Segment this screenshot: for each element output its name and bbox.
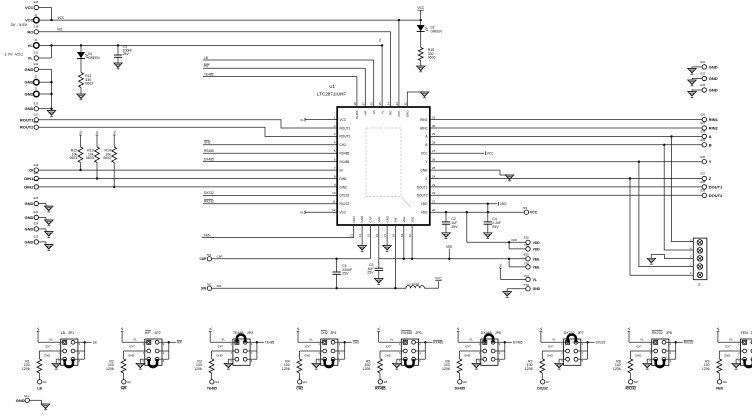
svg-text:JP5: JP5: [415, 331, 421, 335]
svg-text:LB: LB: [204, 56, 208, 60]
svg-text:RX232: RX232: [684, 341, 694, 345]
ground symbol C4: [484, 233, 493, 239]
svg-text:1.7V -VCC: 1.7V -VCC: [4, 51, 23, 56]
svg-text:FEN: FEN: [741, 331, 749, 335]
svg-text:H/F: H/F: [364, 110, 368, 115]
svg-text:VL: VL: [49, 338, 53, 342]
svg-text:SW: SW: [394, 217, 398, 222]
svg-text:VEE: VEE: [446, 245, 452, 249]
wire GND JP6: [464, 354, 483, 364]
svg-text:GND: GND: [709, 88, 718, 93]
wire GND pin32: [407, 92, 424, 107]
svg-text:GND: GND: [635, 354, 641, 358]
svg-text:VCC: VCC: [421, 152, 428, 156]
test point TP4 VCC: [523, 206, 538, 215]
svg-text:RX232: RX232: [340, 202, 350, 206]
svg-text:20: 20: [408, 234, 412, 238]
svg-text:20: 20: [432, 208, 436, 212]
ground symbol JP5: [393, 363, 402, 369]
svg-text:VL: VL: [28, 43, 34, 48]
connector E32 GND right: [692, 72, 718, 81]
svg-text:RX485: RX485: [375, 387, 385, 391]
wire Z: [430, 177, 702, 179]
svg-text:1206: 1206: [194, 367, 202, 371]
connector E4 CH2: [296, 380, 307, 391]
svg-text:VL: VL: [380, 110, 384, 114]
connector E1 LB: [37, 380, 47, 391]
wire RIN2: [430, 127, 702, 129]
wire EXT JP2: [124, 345, 148, 359]
svg-text:E2: E2: [127, 380, 131, 384]
svg-text:VCC: VCC: [435, 277, 442, 281]
connector E31 GND right: [692, 60, 718, 69]
wire net H/F JP2: [159, 341, 182, 360]
net tag VL pin12: [300, 210, 337, 214]
wire GND JP3: [216, 354, 235, 364]
label 1.7V - VCC: [4, 51, 23, 56]
wire EXT JP8: [630, 345, 654, 359]
wire GND JP2: [128, 354, 147, 364]
ground symbol pin32: [420, 92, 429, 98]
U1 top pin names and numbers: [353, 102, 410, 120]
wire RS485 net: [203, 149, 337, 153]
wire net DX232 JP7: [578, 341, 606, 360]
wire DX485 net: [203, 157, 337, 161]
svg-text:1206: 1206: [525, 367, 533, 371]
jumper shunt JP6: [485, 334, 493, 342]
svg-text:11: 11: [332, 200, 335, 204]
connector E27 RIN2: [701, 121, 719, 130]
svg-text:31: 31: [432, 115, 436, 119]
svg-text:VL: VL: [112, 130, 116, 134]
svg-text:E35: E35: [701, 138, 706, 142]
svg-text:13: 13: [350, 234, 354, 238]
wire EXT JP3: [212, 345, 236, 359]
svg-text:1206: 1206: [363, 367, 371, 371]
wire EXT JP4: [299, 345, 323, 359]
wire EXT JP5: [380, 345, 404, 359]
svg-text:25V: 25V: [342, 272, 349, 276]
svg-text:E39: E39: [701, 188, 706, 192]
ground symbol left chain: [47, 111, 56, 117]
jumper JP3 TE485: [231, 331, 254, 365]
resistor R6: [442, 359, 462, 380]
ground symbol JP2: [136, 363, 145, 369]
svg-text:VCC: VCC: [417, 6, 424, 10]
svg-text:A: A: [709, 134, 712, 139]
svg-text:25V: 25V: [123, 52, 130, 56]
resistor R3: [194, 359, 214, 380]
svg-text:1206: 1206: [613, 367, 621, 371]
capacitor C4: [484, 204, 502, 233]
ground symbol E33: [688, 90, 697, 97]
svg-text:E15: E15: [34, 0, 39, 4]
jumper JP9 FEN: [738, 331, 752, 365]
wire RO net: [39, 28, 391, 107]
connector J1 VCC: [25, 13, 39, 23]
svg-text:VL: VL: [208, 327, 212, 331]
ground symbol pin17: [383, 246, 392, 252]
svg-text:L1 10uH: L1 10uH: [408, 282, 419, 286]
svg-text:34: 34: [387, 102, 391, 106]
wire VDD pin20 row: [430, 211, 524, 213]
ground symbol E24: [39, 229, 54, 237]
svg-text:U1: U1: [329, 84, 335, 89]
svg-text:E8: E8: [634, 380, 638, 384]
svg-text:DX232: DX232: [340, 194, 350, 198]
svg-text:VDD: VDD: [533, 241, 541, 245]
wire VL to E11: [39, 45, 52, 58]
wire CH2 net: [203, 141, 337, 145]
svg-text:GND: GND: [709, 64, 718, 69]
svg-text:GND: GND: [304, 354, 310, 358]
svg-text:H/F: H/F: [177, 341, 182, 345]
U1 right pin names and numbers: [417, 115, 436, 214]
svg-text:35: 35: [378, 102, 382, 106]
svg-text:E22: E22: [34, 196, 39, 200]
ground symbol C2: [442, 233, 451, 239]
wire Y to J5 pin2: [639, 162, 693, 267]
svg-text:EXT: EXT: [386, 345, 392, 349]
wire ROUT2: [39, 127, 338, 136]
svg-text:LB: LB: [372, 111, 376, 115]
net tag VL JP1: [36, 327, 63, 343]
connector E26 RIN1: [701, 113, 719, 122]
svg-text:RO: RO: [27, 29, 33, 34]
wire GND JP1: [44, 354, 63, 364]
svg-text:23: 23: [432, 183, 436, 187]
ground symbol E22: [39, 204, 54, 212]
svg-text:TE485: TE485: [204, 72, 214, 76]
svg-text:VL: VL: [95, 130, 99, 134]
test point TP5 VDD: [524, 243, 540, 251]
svg-text:RX232: RX232: [652, 331, 663, 335]
svg-text:H/F: H/F: [145, 331, 152, 335]
wire B to J5 pin4: [664, 145, 693, 250]
svg-text:GND: GND: [533, 287, 541, 291]
svg-text:VEE: VEE: [402, 216, 406, 222]
ground symbol E23: [39, 217, 54, 225]
svg-text:JP1: JP1: [68, 331, 74, 335]
wire VCC net E15 to J1: [39, 8, 52, 21]
svg-text:VL: VL: [498, 263, 502, 267]
jumper shunt JP5: [405, 359, 413, 367]
svg-text:VLO: VLO: [340, 211, 347, 215]
wire pin25 GND: [430, 170, 510, 175]
resistor R14: [103, 130, 116, 188]
U1 bottom pin names and numbers: [350, 215, 415, 237]
wire GND JP7: [547, 354, 566, 364]
ground symbol TP8: [503, 289, 512, 298]
svg-text:25V: 25V: [492, 225, 499, 229]
connector E17 ROUT1: [20, 113, 39, 123]
svg-text:GND: GND: [25, 201, 34, 206]
svg-text:GND: GND: [16, 398, 25, 403]
wire pin14 GND: [361, 225, 363, 246]
svg-text:0603: 0603: [85, 82, 93, 86]
connector J2 GND: [25, 75, 40, 85]
svg-text:GND: GND: [385, 354, 391, 358]
wire net CH2 JP4: [335, 341, 359, 360]
svg-text:VEE: VEE: [533, 265, 541, 269]
wire FEN net: [202, 225, 354, 238]
connector E19 DI: [29, 163, 38, 173]
svg-text:37: 37: [361, 102, 365, 106]
ground symbol JP1: [52, 363, 61, 369]
svg-text:E32: E32: [701, 72, 706, 76]
svg-text:GREEN: GREEN: [88, 56, 100, 60]
svg-text:E17: E17: [34, 113, 39, 117]
svg-text:EXT: EXT: [725, 345, 731, 349]
svg-text:E1: E1: [43, 380, 47, 384]
svg-text:28: 28: [432, 141, 436, 145]
wire DIN2: [39, 186, 338, 188]
resistor R9: [702, 359, 722, 380]
ground symbol pin14: [358, 246, 367, 252]
jumper JP7 DX232: [561, 331, 584, 365]
svg-text:1206: 1206: [22, 367, 30, 371]
svg-text:GND: GND: [44, 354, 50, 358]
svg-text:GND: GND: [25, 92, 34, 97]
wire net RX485 JP5: [416, 341, 444, 360]
wire net DX485 JP6: [495, 341, 523, 360]
wire GND JP9: [724, 354, 743, 364]
connector E16 RO: [27, 25, 38, 35]
connector E11 VL: [28, 50, 39, 60]
jumper shunt JP9: [745, 359, 752, 367]
svg-text:VL: VL: [378, 38, 382, 42]
svg-text:E7: E7: [546, 380, 550, 384]
svg-text:EXT: EXT: [466, 345, 472, 349]
capacitor C5: [114, 45, 133, 64]
svg-text:RIN1: RIN1: [420, 118, 427, 122]
svg-text:DIN2: DIN2: [340, 185, 347, 189]
wire net RX232 JP8: [666, 341, 694, 360]
svg-text:25V: 25V: [451, 225, 458, 229]
svg-text:GND: GND: [464, 354, 470, 358]
svg-text:GND: GND: [406, 110, 410, 118]
LED D1: [77, 45, 100, 72]
test point TP1 CAP: [199, 253, 211, 261]
wire TE485 net: [203, 72, 357, 107]
svg-text:CH2: CH2: [340, 143, 347, 147]
svg-text:24: 24: [432, 174, 436, 178]
svg-text:E24: E24: [34, 222, 39, 226]
svg-text:16: 16: [375, 234, 379, 238]
svg-text:14: 14: [358, 234, 362, 238]
wire GND JP8: [635, 354, 654, 364]
resistor R11: [79, 73, 94, 95]
ground symbol R15: [416, 66, 425, 72]
svg-text:TP4: TP4: [523, 206, 528, 210]
svg-text:JP7: JP7: [578, 331, 584, 335]
svg-text:ROUT1: ROUT1: [20, 117, 34, 122]
svg-text:E36: E36: [701, 155, 706, 159]
ground symbol J5: [647, 258, 656, 264]
svg-text:VL: VL: [469, 338, 473, 342]
svg-text:15: 15: [366, 234, 370, 238]
svg-text:EXT: EXT: [218, 345, 224, 349]
svg-text:GND: GND: [216, 354, 222, 358]
svg-text:E37: E37: [701, 172, 706, 176]
svg-text:DX232: DX232: [537, 387, 547, 391]
svg-text:LTC2871IUHF: LTC2871IUHF: [317, 92, 346, 97]
svg-text:GND: GND: [128, 354, 134, 358]
svg-text:RO: RO: [389, 110, 393, 115]
connector E38 DOUT1: [701, 180, 724, 189]
svg-text:RX232: RX232: [204, 200, 214, 204]
svg-text:E21: E21: [34, 178, 39, 182]
ground symbol E25: [39, 242, 54, 250]
svg-text:26: 26: [432, 158, 436, 162]
ground symbol R11: [77, 94, 86, 100]
svg-text:17: 17: [383, 234, 387, 238]
svg-text:DI: DI: [340, 168, 343, 172]
wire A to J5 pin5: [672, 136, 694, 241]
ground symbol JP9: [732, 363, 741, 369]
wire EXT JP6: [460, 345, 484, 359]
jumper JP5 RX485: [399, 331, 422, 366]
svg-text:VCC: VCC: [397, 110, 401, 117]
wire DOUT2: [430, 194, 702, 196]
svg-text:DOUT1: DOUT1: [417, 185, 428, 189]
svg-text:VL: VL: [627, 327, 631, 331]
connector E14 GND bottom left: [16, 394, 46, 404]
svg-text:E11: E11: [34, 50, 39, 54]
wire EXT JP7: [542, 345, 566, 359]
svg-text:ROUT2: ROUT2: [340, 135, 351, 139]
LED D2: [417, 20, 443, 47]
svg-text:VCC: VCC: [530, 211, 538, 215]
svg-text:RIN2: RIN2: [709, 126, 719, 131]
svg-text:GND: GND: [724, 354, 730, 358]
connector E15 VCC: [25, 0, 39, 10]
svg-text:RS485: RS485: [340, 152, 350, 156]
svg-text:GND: GND: [420, 168, 428, 172]
svg-text:CAP: CAP: [199, 257, 207, 261]
svg-text:E5: E5: [384, 380, 388, 384]
net tag VEE: [446, 245, 452, 259]
ground symbol JP6: [472, 363, 481, 369]
op-amp U1 LTC2871IUHF body: [317, 84, 430, 225]
svg-text:DIN2: DIN2: [24, 184, 34, 189]
svg-text:B: B: [425, 143, 427, 147]
wire VDD branch: [467, 212, 526, 249]
svg-text:GND: GND: [25, 215, 34, 220]
svg-text:E26: E26: [701, 113, 706, 117]
svg-text:FEN: FEN: [204, 233, 211, 237]
net tag VL JP7: [539, 327, 566, 343]
wire EXT JP9: [719, 345, 743, 359]
wire B: [430, 144, 702, 146]
connector E30 VEE: [524, 252, 540, 261]
svg-text:GND: GND: [25, 226, 34, 231]
resistor R7: [525, 359, 545, 380]
resistor R8: [613, 359, 633, 380]
svg-text:VL: VL: [729, 338, 733, 342]
net tag VL pin1: [300, 118, 337, 122]
wire ROUT1: [39, 120, 338, 128]
svg-text:VL: VL: [309, 338, 313, 342]
svg-text:30: 30: [432, 124, 436, 128]
connector E18 ROUT2: [20, 120, 39, 130]
svg-text:TP6: TP6: [524, 261, 529, 265]
connector J3 GND: [25, 86, 40, 96]
svg-text:E34: E34: [701, 130, 706, 134]
svg-text:E20: E20: [34, 171, 39, 175]
connector J4 VL: [28, 38, 39, 48]
jumper JP2 H/F: [142, 331, 164, 366]
capacitor C1: [332, 259, 352, 290]
jumper shunt JP8: [656, 359, 664, 367]
test point TP2 SW: [201, 283, 212, 291]
svg-text:E3: E3: [216, 380, 220, 384]
svg-text:VL: VL: [539, 327, 543, 331]
svg-text:H/F: H/F: [121, 387, 126, 391]
test point TP6 VEE: [509, 259, 540, 270]
wire net LB JP1: [75, 341, 97, 360]
svg-text:19: 19: [400, 234, 404, 238]
wire DI: [39, 169, 338, 171]
wire VEE rail: [379, 225, 526, 260]
svg-text:VL: VL: [133, 338, 137, 342]
connector E8 RX232: [626, 380, 639, 391]
connector E20 DIN1: [24, 171, 38, 181]
svg-text:32: 32: [403, 102, 407, 106]
svg-text:0603: 0603: [69, 156, 77, 160]
svg-text:CAP: CAP: [217, 255, 223, 259]
svg-text:VL: VL: [390, 338, 394, 342]
svg-text:CH2: CH2: [204, 141, 211, 145]
svg-text:GND: GND: [25, 239, 34, 244]
svg-text:VEE: VEE: [533, 257, 541, 261]
svg-text:E6: E6: [463, 380, 467, 384]
svg-text:1206: 1206: [702, 367, 710, 371]
resistor R5: [363, 359, 383, 380]
svg-text:RIN1: RIN1: [709, 117, 719, 122]
wire VCC net main: [39, 16, 422, 107]
svg-text:TE485: TE485: [207, 387, 217, 391]
svg-text:SW: SW: [201, 287, 206, 291]
ground symbol JP3: [224, 363, 233, 369]
svg-text:LB: LB: [61, 331, 66, 335]
svg-text:E30: E30: [524, 252, 529, 256]
svg-text:VDD: VDD: [533, 247, 541, 251]
svg-text:TP7: TP7: [524, 274, 529, 278]
test point TP7 VL: [498, 263, 537, 282]
svg-text:TE485: TE485: [355, 110, 359, 119]
svg-text:DOUT1: DOUT1: [709, 184, 723, 189]
svg-text:GND: GND: [709, 76, 718, 81]
svg-text:J5: J5: [698, 283, 701, 287]
svg-text:21: 21: [432, 200, 436, 204]
resistor R2: [106, 359, 126, 380]
svg-text:E33: E33: [701, 83, 706, 87]
wire Z to J5 pin1: [630, 179, 693, 276]
svg-text:RO: RO: [58, 28, 63, 32]
svg-text:DIN1: DIN1: [340, 177, 347, 181]
U1 left pin names and numbers: [332, 115, 350, 214]
svg-text:TP8: TP8: [524, 283, 529, 287]
svg-text:FEN: FEN: [716, 387, 723, 391]
net tag VL JP9: [716, 327, 743, 343]
svg-text:CAP: CAP: [369, 216, 373, 222]
svg-text:1206: 1206: [442, 367, 450, 371]
connector E22 GND: [25, 196, 39, 206]
wire DIN1: [39, 178, 338, 180]
svg-text:JP4: JP4: [330, 331, 336, 335]
connector E34 A: [701, 130, 712, 139]
